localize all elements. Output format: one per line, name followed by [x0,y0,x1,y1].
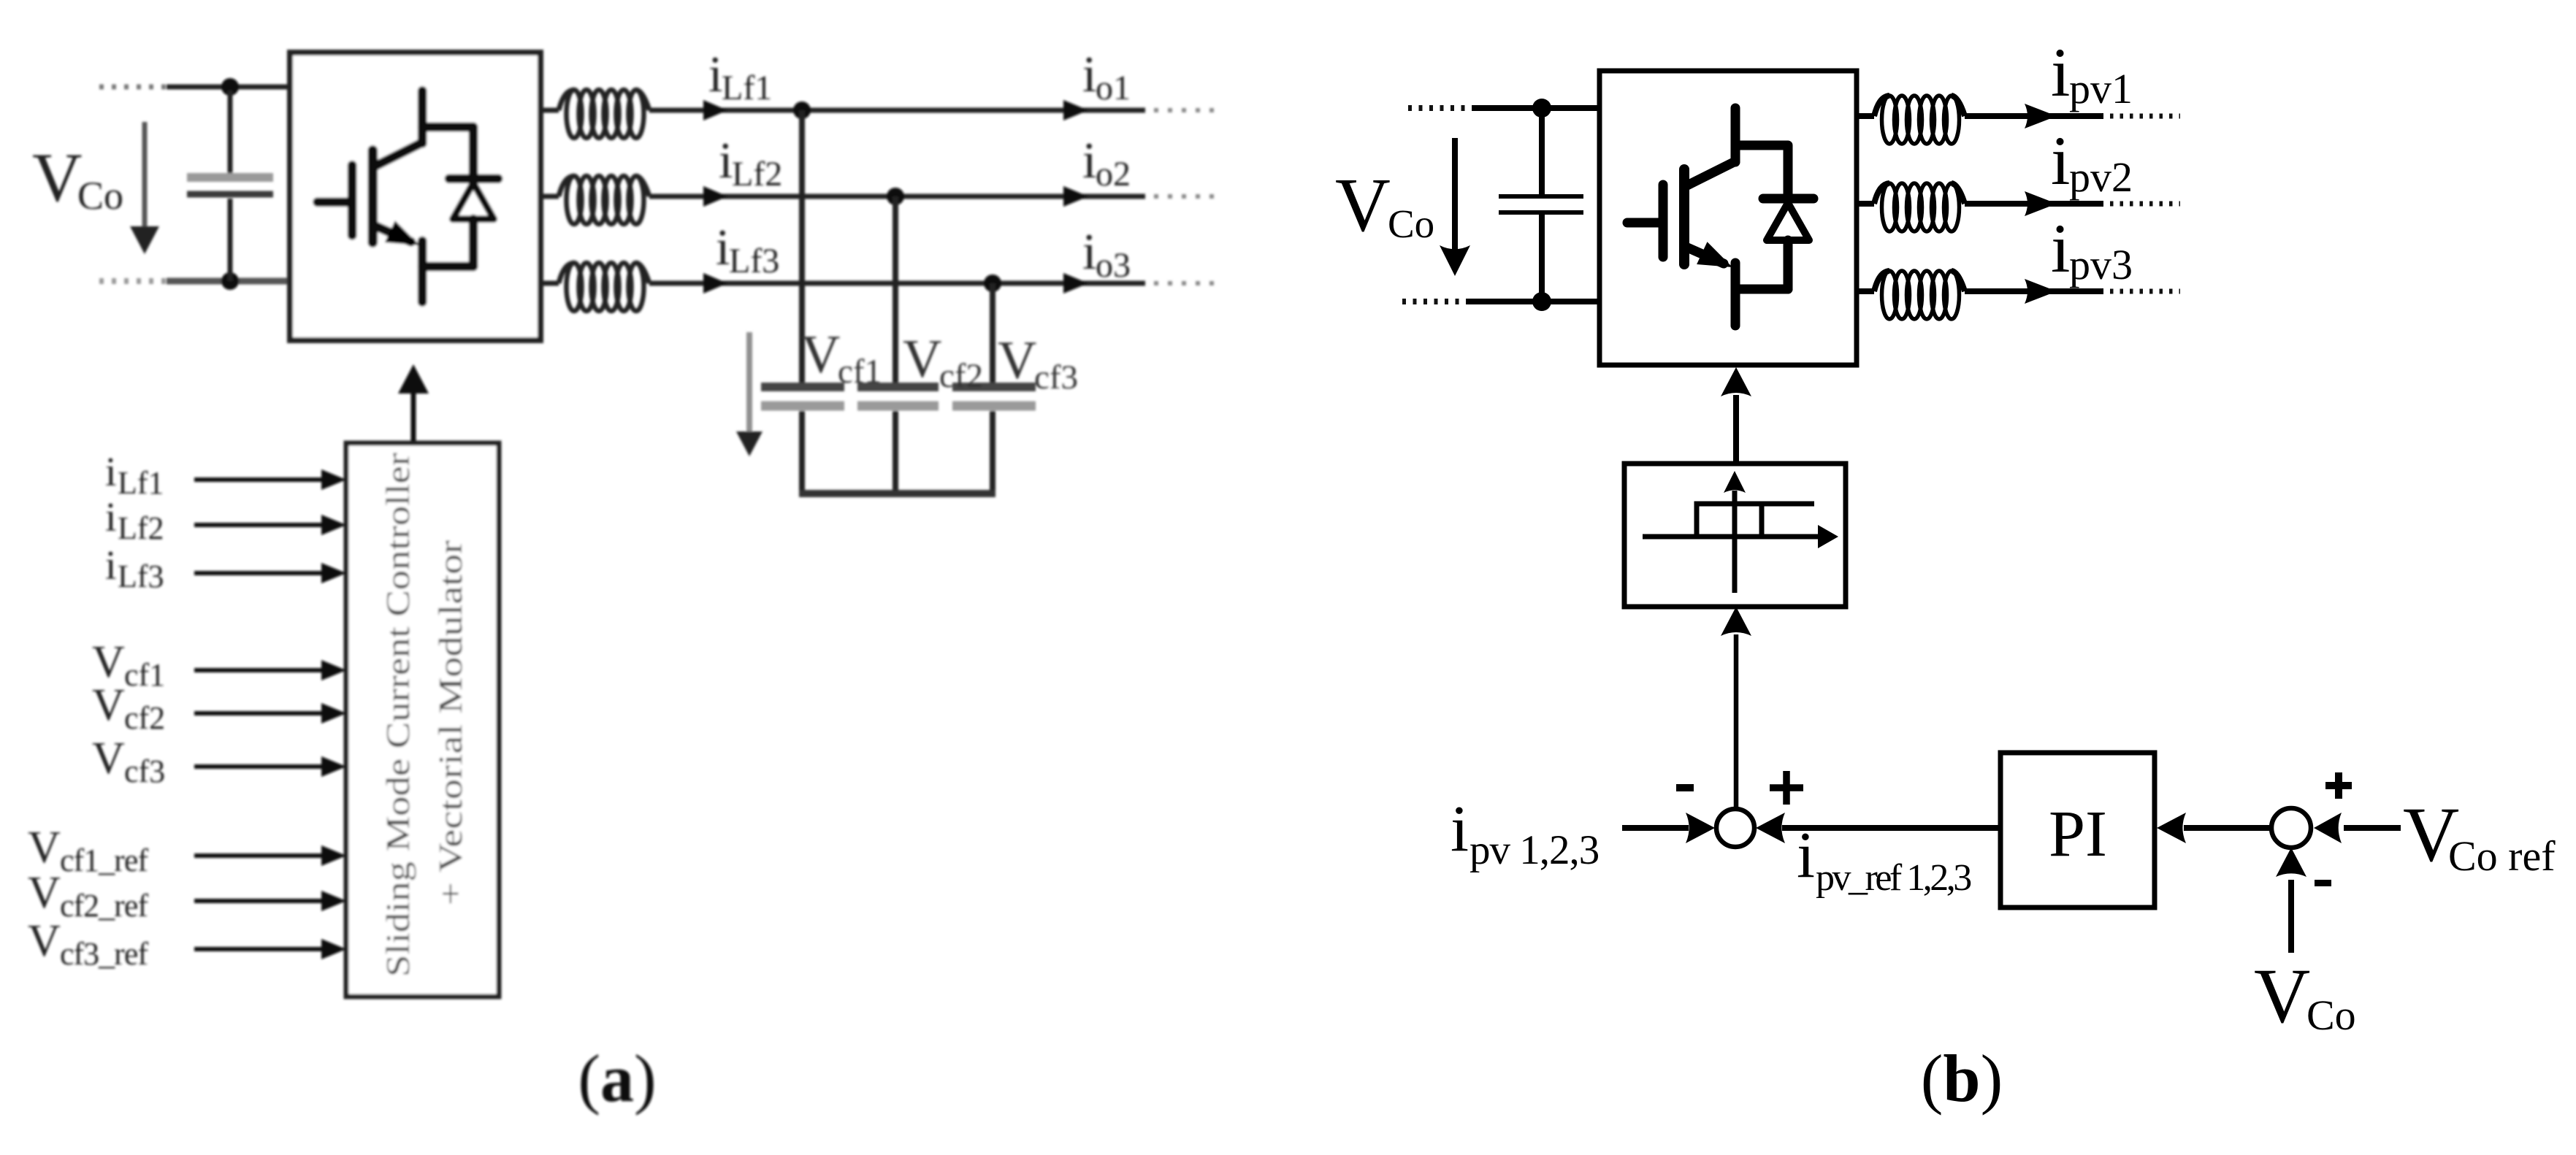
wire+arrow: VCo ref into junction 2 (b) [2344,825,2401,831]
wire: phase 1 line (b) [1965,113,2103,119]
wire: phase 1 line (a) [649,108,1145,113]
svg-text:Co: Co [1388,202,1434,246]
svg-text:cf2_ref: cf2_ref [60,888,148,924]
svg-text:i: i [1797,819,1815,891]
wire: top DC rail (a) dotted tail [99,85,169,90]
wire: phase 3 stub from converter (a) [540,281,559,286]
arrow: iLf1 direction (a) [703,100,727,120]
svg-text:cf2: cf2 [124,700,165,736]
svg-text:i: i [2051,210,2070,287]
wire: phase 2 stub from converter (b) [1857,201,1874,207]
wire+arrow: hysteresis output to converter (b) [1733,395,1739,465]
label minus at summing junction 2 [2315,880,2331,886]
wire: phase 3 line (a) [649,281,1145,286]
IGBT with anti-parallel diode (a) [318,91,498,302]
wire: Cf2 to bus (a) [893,411,898,494]
wire: Cf2 drop (a) [893,196,898,383]
svg-text:(a): (a) [578,1041,656,1116]
wire: phase 2 line (b) [1965,201,2103,207]
label plus at summing junction 2 [2325,782,2352,789]
svg-text:i: i [2051,34,2070,111]
wire: phase 2 stub from converter (a) [540,194,559,199]
svg-text:pv2: pv2 [2069,153,2133,201]
wire+arrow: VCo feedback into junction 2 (b) [2288,880,2294,953]
PI controller box (b) [2000,753,2155,907]
svg-text:Lf1: Lf1 [118,465,164,501]
svg-text:pv 1,2,3: pv 1,2,3 [1469,827,1599,873]
svg-text:cf3: cf3 [1034,358,1078,396]
summing junction 1 (b) [1716,809,1754,847]
svg-text:pv_ref 1,2,3: pv_ref 1,2,3 [1816,857,1971,899]
inductor Lpv1 (b) [1874,96,1965,144]
svg-text:V: V [28,823,61,872]
arrow: io1 direction (a) [1063,100,1088,120]
hysteresis symbol: horizontal axis [1643,534,1824,540]
wire: phase 2 dotted tail (b) [2110,202,2180,207]
svg-text:Sliding Mode Current Controlle: Sliding Mode Current Controller [379,453,416,977]
wire+arrow: junction 2 output into PI (b) [2184,825,2271,831]
wire: top DC rail (a) [167,85,290,90]
label plus at summing junction 1 [1770,784,1803,791]
wire: bottom DC rail (a) dotted tail [99,278,169,284]
inductor Lf2 (a) [559,176,649,224]
svg-text:i: i [105,543,117,588]
svg-text:Co ref: Co ref [2448,832,2556,880]
svg-text:V: V [998,331,1036,391]
svg-text:i: i [105,495,117,540]
svg-text:i: i [1451,793,1469,865]
wire: bottom DC rail (b) [1467,299,1600,304]
svg-text:V: V [2254,953,2310,1040]
svg-text:PI: PI [2049,798,2107,870]
inductor Lpv2 (b) [1874,183,1965,231]
converter box (a) [290,53,540,340]
svg-text:Lf3: Lf3 [118,559,164,594]
svg-text:V: V [28,916,61,966]
wire: phase 1 dotted tail (b) [2110,114,2180,119]
wire+arrow: controller input Vcf2 (a) [194,711,325,715]
inductor Lf3 (a) [559,263,649,311]
svg-text:cf3_ref: cf3_ref [60,936,148,972]
svg-text:i: i [719,133,733,189]
hysteresis controller box (b) [1624,464,1846,607]
wire: phase 2 line (a) [649,194,1145,199]
arrow: ipv1 direction (b) [2025,104,2057,128]
svg-text:V: V [92,680,125,730]
node: bottom DC junction (b) [1532,292,1551,311]
wire: Cf1 drop (a) [799,110,805,383]
hysteresis symbol: relay characteristic [1697,504,1814,537]
wire: top DC rail (b) [1472,105,1600,111]
wire+arrow: controller input iLf2 (a) [194,523,325,527]
wire: phase 1 dotted tail (a) [1154,108,1218,112]
svg-text:i: i [1082,224,1096,280]
wire+arrow: controller input Vcf3 (a) [194,764,325,769]
svg-text:V: V [92,734,125,783]
wire: Cf1 to bus (a) [799,411,805,494]
wire+arrow: controller input Vcf3_ref (a) [194,947,325,951]
wire+arrow: controller input iLf3 (a) [194,571,325,575]
svg-text:V: V [1335,162,1391,247]
label minus at summing junction 1 [1676,784,1694,791]
svg-text:i: i [708,47,722,103]
wire+arrow: ipv_ref from PI into junction 1 (b) [1782,825,2000,831]
hysteresis symbol: vertical axis [1732,491,1738,593]
svg-text:cf3: cf3 [124,753,165,789]
svg-text:Lf3: Lf3 [729,242,779,280]
svg-text:V: V [32,139,83,216]
svg-text:Lf2: Lf2 [732,155,782,193]
node: junction phase 2 / Cf2 (a) [887,188,904,205]
svg-text:i: i [1082,133,1096,189]
capacitor Cf1 (a) [761,383,844,391]
node: junction phase 1 / Cf1 (a) [793,101,811,119]
svg-text:i: i [1082,47,1096,103]
wire+arrow: summing junction 1 to hysteresis (b) [1734,634,1739,809]
wire: phase 3 stub from converter (b) [1857,288,1874,294]
arrow: io3 direction (a) [1063,273,1088,293]
arrow: VCo reference direction (b) [1452,138,1458,250]
wire+arrow: controller input Vcf2_ref (a) [194,899,325,903]
svg-text:pv3: pv3 [2069,241,2133,288]
node: top DC junction (a) [221,78,239,96]
svg-text:cf2: cf2 [939,357,983,395]
svg-text:V: V [903,329,941,389]
svg-text:i: i [2051,122,2070,199]
svg-text:Co: Co [77,174,123,218]
wire: phase 3 dotted tail (a) [1154,281,1218,285]
svg-text:cf1_ref: cf1_ref [60,843,148,878]
svg-text:Co: Co [2306,991,2356,1039]
wire+arrow: controller input iLf1 (a) [194,477,325,482]
wire: phase 2 dotted tail (a) [1154,194,1218,199]
capacitor Co (b) [1539,108,1545,195]
svg-text:Lf1: Lf1 [722,69,772,107]
arrow: VCo reference direction (a) [142,122,148,228]
arrow: Vcf reference direction (a) [746,332,752,432]
svg-text:V: V [28,868,61,918]
svg-text:V: V [92,637,125,687]
node: top DC junction (b) [1532,99,1551,118]
wire: top DC rail (b) dotted tail [1408,105,1475,111]
wire+arrow: controller input Vcf1 (a) [194,668,325,672]
arrow: iLf3 direction (a) [703,273,727,293]
wire: Cf3 drop (a) [990,283,995,383]
arrow: ipv2 direction (b) [2025,191,2057,216]
controller box: sliding mode controller (a) [346,443,499,997]
capacitor Cf3 (a) [952,383,1036,391]
wire: bottom DC rail (b) dotted tail [1402,299,1469,304]
wire: phase 1 stub from converter (a) [540,108,559,113]
converter box (b) [1600,71,1857,365]
wire: Cf3 to bus (a) [990,411,995,497]
IGBT with anti-parallel diode (b) [1627,108,1813,326]
svg-text:+ Vectorial Modulator: + Vectorial Modulator [432,540,469,905]
wire+arrow: controller output to converter (a) [411,394,416,441]
arrow: iLf2 direction (a) [703,186,727,207]
svg-text:i: i [105,450,117,495]
arrow: ipv3 direction (b) [2025,279,2057,304]
svg-text:o3: o3 [1096,246,1131,285]
wire: phase 3 dotted tail (b) [2110,289,2180,294]
arrow: io2 direction (a) [1063,186,1088,207]
wire: phase 3 line (b) [1965,288,2103,294]
svg-text:(b): (b) [1921,1041,2003,1116]
inductor Lpv3 (b) [1874,271,1965,319]
svg-text:pv1: pv1 [2069,65,2133,112]
svg-text:cf1: cf1 [838,353,882,391]
wire+arrow: ipv feedback into junction 1 (b) [1622,825,1689,831]
wire: bottom DC rail (a) [167,278,290,285]
node: junction phase 3 / Cf3 (a) [984,275,1001,292]
wire: phase 1 stub from converter (b) [1857,113,1874,119]
wire+arrow: controller input Vcf1_ref (a) [194,853,325,858]
capacitor Co (a) [228,91,233,174]
inductor Lf1 (a) [559,90,649,138]
svg-text:o1: o1 [1096,69,1131,107]
capacitor Cf2 (a) [857,383,939,391]
node: bottom DC junction (a) [221,272,239,290]
summing junction 2 (b) [2271,808,2311,848]
svg-text:o2: o2 [1096,155,1131,193]
svg-text:cf1: cf1 [124,657,165,693]
svg-text:V: V [801,325,840,385]
svg-text:i: i [716,220,730,276]
svg-text:Lf2: Lf2 [118,510,164,546]
wire: capacitor bank bottom bus (a) [799,490,995,497]
